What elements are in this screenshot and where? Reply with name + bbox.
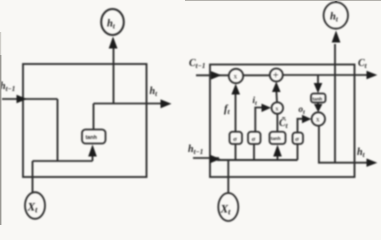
arrowhead h_t right	[161, 99, 172, 108]
arrowhead into tanh3	[273, 145, 282, 157]
node X_t input circle (right)	[218, 193, 238, 221]
wire C exit	[282, 74, 369, 76]
wire tanh output stem	[93, 104, 95, 130]
wire tanh2 to x3	[317, 103, 319, 107]
arrowhead x2 into +	[272, 82, 281, 92]
scan artifact: top edge faint line	[185, 0, 381, 1]
node h_t output circle (top right)	[324, 2, 348, 29]
wire h_{t-1} vertical drop	[57, 99, 59, 161]
wire C entry	[196, 74, 229, 76]
sigma box 4 (output gate)	[293, 133, 304, 145]
arrowhead into h_t circle	[109, 37, 118, 49]
sigma box 2 (input gate)	[248, 132, 261, 144]
svg-text:tanh: tanh	[271, 136, 281, 141]
wire sigma4 stem down	[297, 144, 299, 160]
node X_t input circle	[25, 192, 45, 219]
wire h_t exit right	[335, 162, 369, 164]
multiply node x2 (input gate)	[272, 102, 284, 114]
wire tanh output up to h_t circle	[113, 46, 115, 104]
wire into tanh from below	[92, 150, 94, 161]
wire sigma1 stem down	[235, 144, 237, 160]
arrowhead C_t exit	[367, 71, 378, 79]
LSTM cell box	[210, 65, 355, 178]
arrowhead h_{t-1} entry	[210, 155, 221, 163]
wire h_{t-1} entry	[193, 157, 219, 159]
wire branch C down to tanh2	[317, 75, 319, 86]
wire stub above h_t circle	[335, 0, 337, 3]
multiply node forget gate	[229, 69, 243, 83]
wire h line to right output	[94, 103, 164, 105]
arrowhead into h_t circle top	[332, 31, 341, 43]
tanh3 box (candidate)	[270, 132, 286, 144]
wire x3 output down and right	[319, 126, 335, 163]
arrowhead into x3	[314, 104, 322, 112]
arrowhead C entry	[211, 71, 222, 79]
arrowhead i_t into x2	[262, 104, 272, 112]
tanh box	[82, 130, 106, 144]
arrowhead f_t into x1	[231, 84, 240, 95]
arrowhead h_{t-1} entry	[17, 95, 28, 103]
wire sigma2 stem down	[253, 144, 255, 160]
wire tanh3 output up into x2	[276, 114, 278, 132]
node h_t output circle (top)	[101, 9, 124, 35]
add node	[270, 69, 283, 82]
wire h_{t-1} entry	[2, 98, 58, 100]
svg-text:x: x	[234, 73, 238, 81]
svg-text:σ: σ	[295, 136, 299, 143]
wire f_t stem	[235, 88, 237, 132]
arrowhead into tanh2	[314, 83, 323, 93]
wire up to h_t circle (top)	[334, 44, 336, 163]
wire X_t stem	[32, 161, 34, 193]
wire i_t path	[255, 108, 266, 132]
svg-text:σ: σ	[233, 136, 237, 143]
svg-text:x: x	[316, 116, 320, 124]
svg-text:+: +	[273, 71, 279, 82]
svg-text:σ: σ	[252, 136, 256, 143]
svg-text:tanh: tanh	[313, 96, 323, 101]
multiply node output gate x3	[312, 112, 325, 125]
wire o_t path	[298, 119, 308, 133]
tanh2 box (cell output squash)	[311, 94, 326, 103]
RNN cell box	[23, 64, 147, 177]
arrowhead o_t into x3	[302, 115, 311, 123]
arrowhead h_t exit	[367, 159, 378, 167]
wire C between x and +	[243, 74, 270, 76]
wire x2 up to +	[275, 91, 278, 103]
svg-text:tanh: tanh	[86, 135, 97, 141]
wire inner h line	[217, 159, 298, 161]
wire bottom merge line	[33, 160, 93, 162]
sigma box 1 (forget gate)	[230, 132, 243, 144]
wire into tanh3 from h line	[277, 151, 279, 160]
arrowhead into tanh bottom	[88, 145, 97, 157]
scan artifact: left edge dark band	[0, 55, 1, 225]
wire X_t stem (right)	[227, 160, 229, 193]
